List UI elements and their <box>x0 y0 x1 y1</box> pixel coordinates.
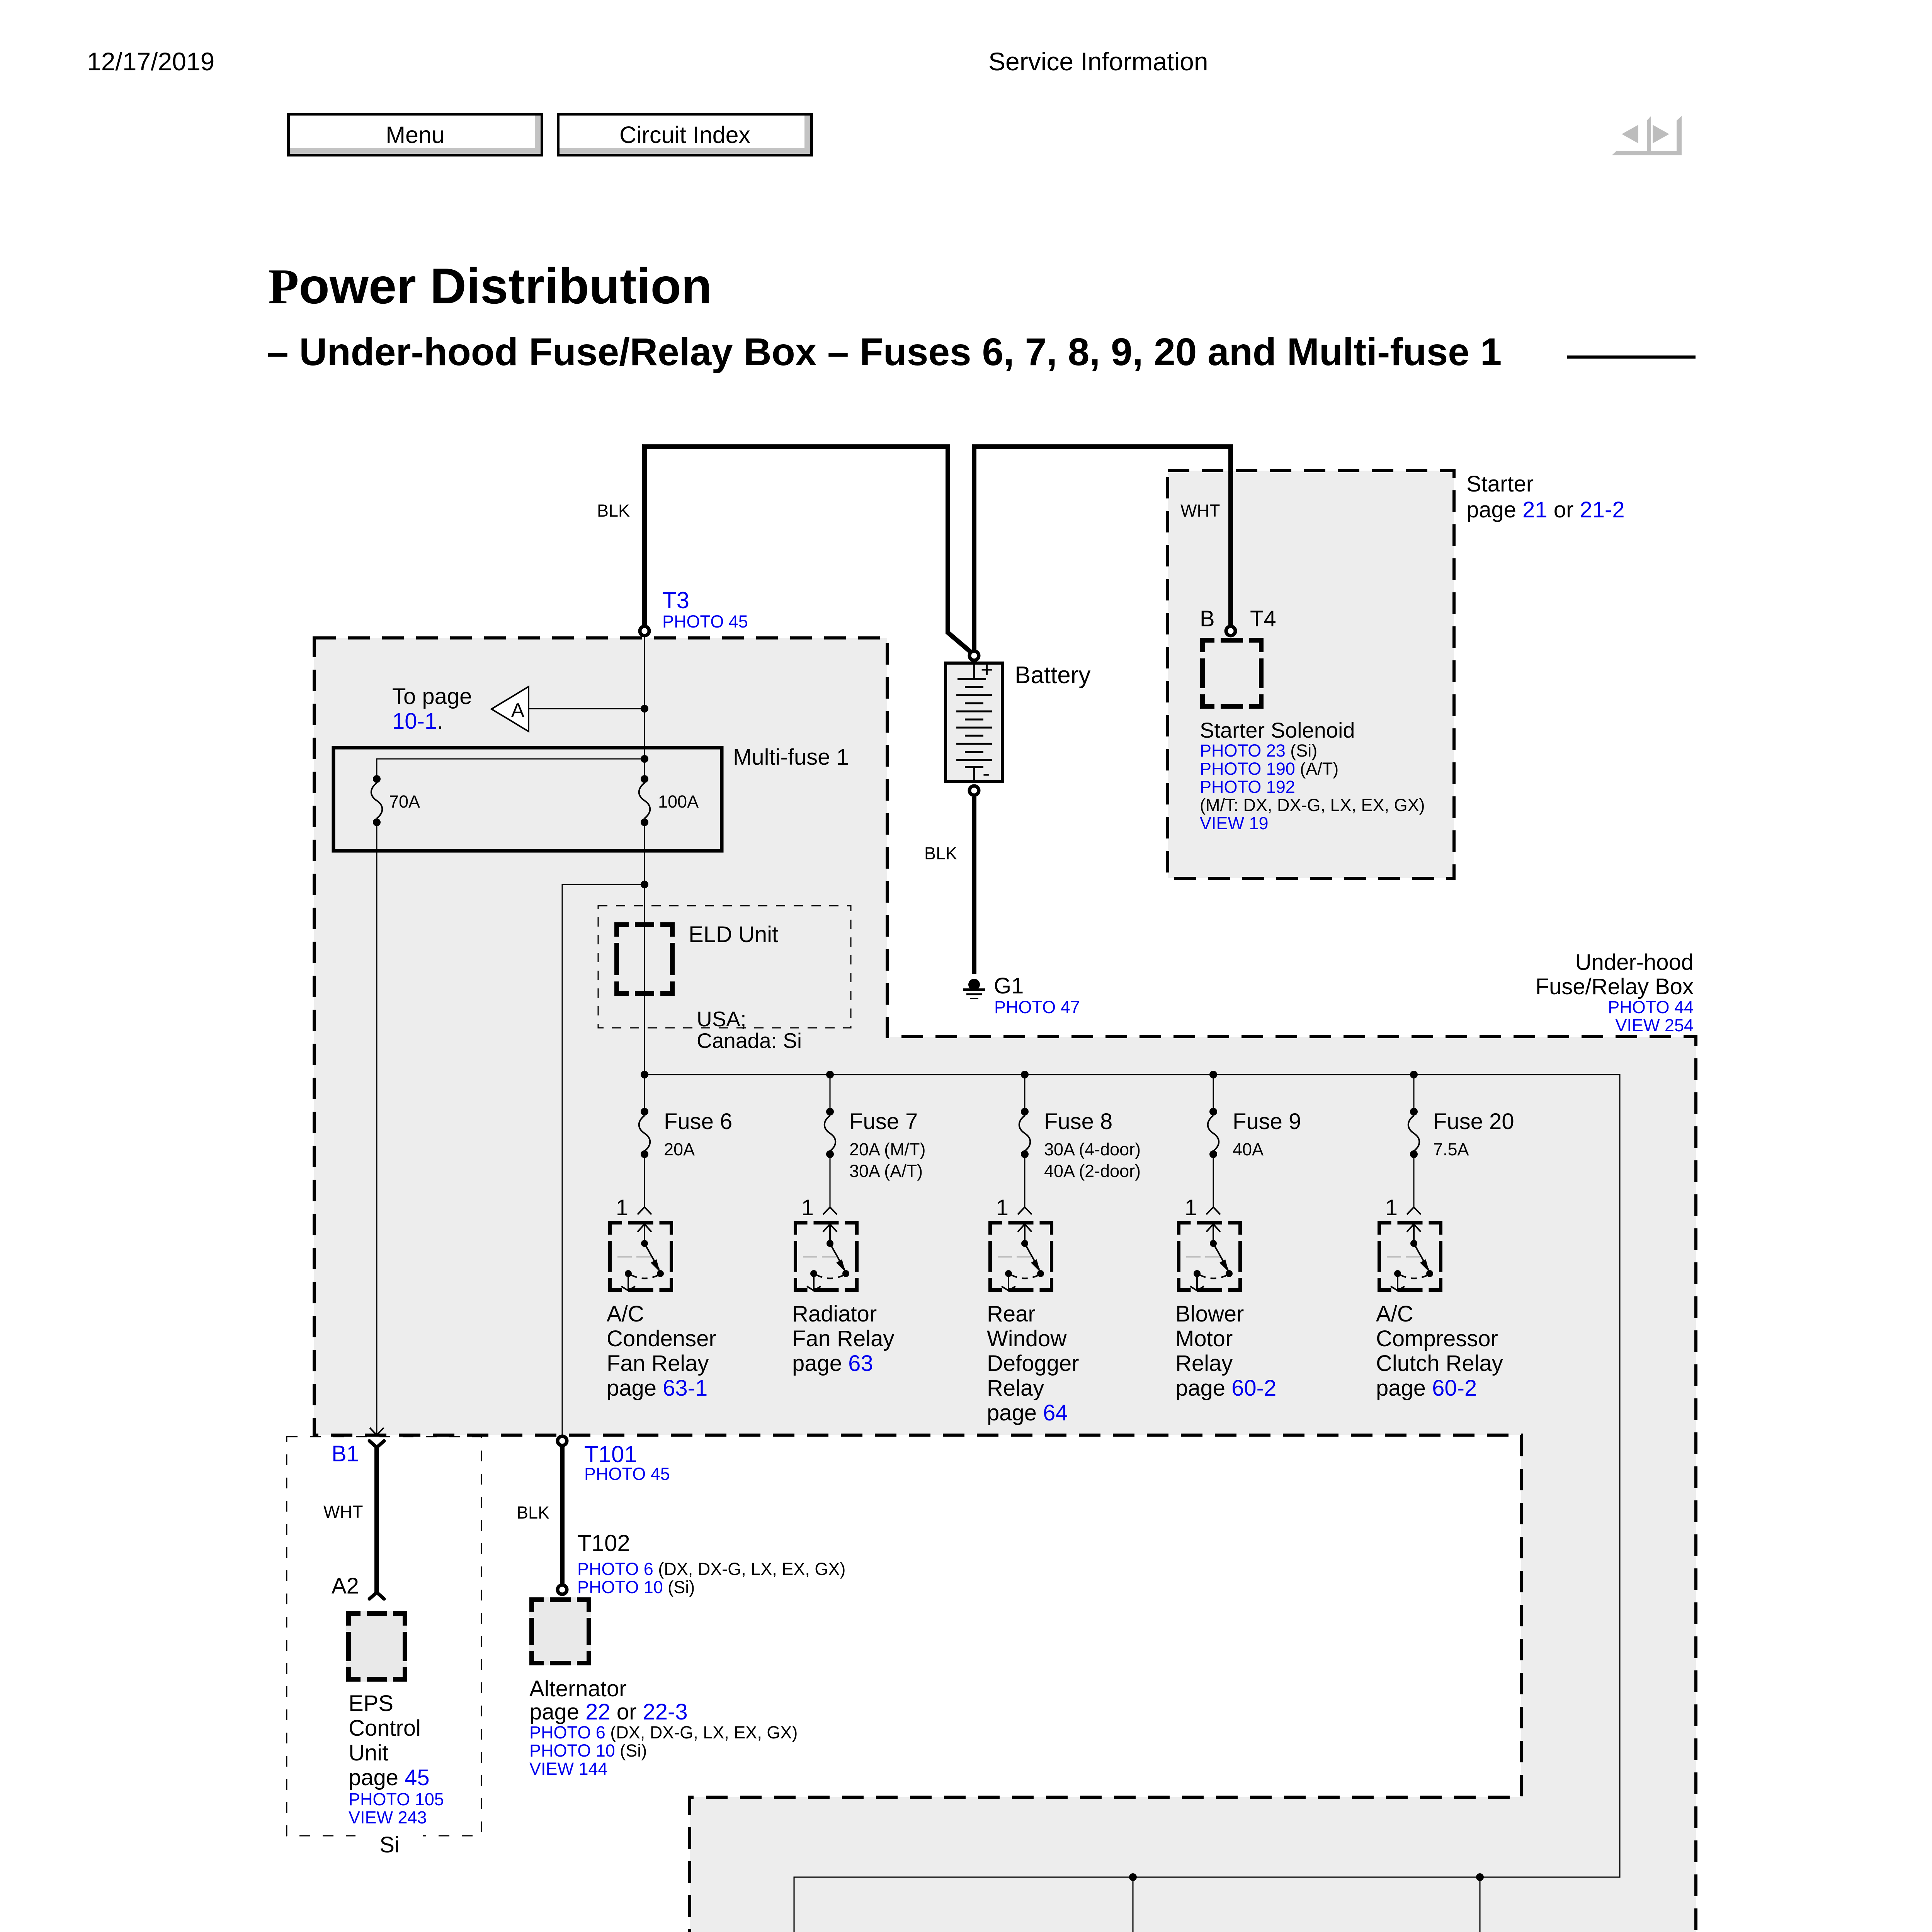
terminal T3 <box>640 626 649 636</box>
fuse Fuse 6 <box>644 1075 645 1112</box>
wire inside multi-fuse box <box>377 759 645 779</box>
svg-text:Si: Si <box>379 1832 400 1857</box>
svg-text:BLK: BLK <box>924 844 957 863</box>
node fuse Fuse 8 tap <box>1021 1071 1029 1078</box>
svg-text:Compressor: Compressor <box>1376 1326 1498 1351</box>
fuse Fuse 20 <box>1413 1075 1415 1112</box>
svg-text:Motor: Motor <box>1175 1326 1233 1351</box>
svg-text:Radiator: Radiator <box>792 1301 877 1327</box>
wire: battery+ up and over to starter T4 (WHT) <box>974 447 1231 650</box>
relay U1 contacts <box>621 1224 659 1291</box>
alternator connector box <box>529 1597 591 1665</box>
svg-text:Under-hood: Under-hood <box>1575 950 1694 975</box>
ground G1 <box>968 979 980 990</box>
page title <box>268 261 712 312</box>
Starter dashed box (shaded) <box>1168 471 1454 878</box>
svg-text:40A (2-door): 40A (2-door) <box>1044 1161 1141 1181</box>
svg-text:page 63-1: page 63-1 <box>607 1376 707 1401</box>
fuse bus wire <box>645 1075 1620 1932</box>
svg-text:PHOTO 192: PHOTO 192 <box>1200 777 1295 797</box>
svg-text:T4: T4 <box>1250 606 1276 631</box>
svg-text:BLK: BLK <box>597 501 630 520</box>
node fuse Fuse 6 tap <box>641 1071 648 1078</box>
node junction on main feed <box>641 705 648 713</box>
svg-text:70A: 70A <box>389 792 420 811</box>
subtitle <box>267 333 1502 371</box>
svg-text:Fuse 9: Fuse 9 <box>1233 1109 1301 1134</box>
svg-text:VIEW 19: VIEW 19 <box>1200 813 1269 833</box>
relay U2 contacts <box>807 1224 845 1291</box>
svg-text:30A (A/T): 30A (A/T) <box>849 1161 923 1181</box>
svg-text:20A (M/T): 20A (M/T) <box>849 1139 926 1159</box>
wire B1 to A2 (WHT) <box>374 1447 379 1593</box>
terminal T101 <box>558 1436 567 1446</box>
svg-text:PHOTO 45: PHOTO 45 <box>662 612 748 631</box>
wire T101 to T102 (BLK) <box>560 1446 565 1585</box>
Si dashed box <box>287 1437 481 1836</box>
wire taps to page connectors C and D <box>1133 1877 1134 1932</box>
terminal A2 fork <box>369 1592 384 1599</box>
terminal T102 <box>558 1585 567 1594</box>
svg-text:Fan Relay: Fan Relay <box>792 1326 894 1351</box>
svg-text:VIEW 254: VIEW 254 <box>1615 1015 1694 1035</box>
svg-text:Blower: Blower <box>1175 1301 1244 1327</box>
svg-text:PHOTO 47: PHOTO 47 <box>994 997 1080 1017</box>
svg-text:BLK: BLK <box>517 1503 549 1522</box>
header title <box>988 49 1208 74</box>
svg-text:B: B <box>1200 606 1215 631</box>
svg-text:page 45: page 45 <box>349 1765 430 1790</box>
Multi-fuse 1 box <box>333 748 722 851</box>
svg-text:20A: 20A <box>664 1139 695 1159</box>
node fuse Fuse 9 tap <box>1209 1071 1217 1078</box>
fuse 100A <box>641 775 648 783</box>
svg-text:Fan Relay: Fan Relay <box>607 1351 709 1376</box>
svg-text:EPS: EPS <box>349 1691 393 1716</box>
svg-text:Starter: Starter <box>1466 471 1534 497</box>
svg-text:40A: 40A <box>1233 1139 1264 1159</box>
svg-text:WHT: WHT <box>323 1502 363 1522</box>
EPS control unit connector box <box>346 1611 407 1682</box>
wire to page connector A <box>529 708 645 709</box>
battery terminal circles <box>969 651 979 660</box>
svg-text:Battery: Battery <box>1015 662 1090 689</box>
svg-text:PHOTO 105: PHOTO 105 <box>349 1789 444 1809</box>
svg-text:G1: G1 <box>994 973 1024 998</box>
svg-text:page 63: page 63 <box>792 1351 873 1376</box>
svg-text:PHOTO 23 (Si): PHOTO 23 (Si) <box>1200 741 1317 760</box>
svg-text:PHOTO 10 (Si): PHOTO 10 (Si) <box>577 1577 695 1597</box>
svg-text:1: 1 <box>616 1195 628 1220</box>
pin 1 terminal chevron <box>1407 1207 1421 1214</box>
svg-text:Clutch Relay: Clutch Relay <box>1376 1351 1503 1376</box>
main feed wire through box <box>644 637 645 779</box>
page connector A (triangle) <box>492 687 529 731</box>
svg-text:Fuse 20: Fuse 20 <box>1433 1109 1514 1134</box>
fuse Fuse 8 <box>1024 1075 1026 1112</box>
svg-text:1: 1 <box>1385 1195 1398 1220</box>
svg-text:Canada: Si: Canada: Si <box>697 1029 802 1053</box>
svg-text:USA;: USA; <box>697 1007 746 1031</box>
svg-text:Fuse/Relay Box: Fuse/Relay Box <box>1536 974 1694 999</box>
svg-text:Fuse 7: Fuse 7 <box>849 1109 918 1134</box>
node T101 branch junction <box>641 881 648 888</box>
ELD unit connector box <box>614 922 675 996</box>
relay U4 contacts <box>1190 1224 1228 1291</box>
svg-text:PHOTO 6 (DX, DX-G, LX, EX, GX): PHOTO 6 (DX, DX-G, LX, EX, GX) <box>577 1559 845 1579</box>
wire battery- to G1 (BLK) <box>972 797 976 974</box>
pin 1 terminal chevron <box>1206 1207 1220 1214</box>
svg-text:Fuse 6: Fuse 6 <box>664 1109 732 1134</box>
svg-text:Relay: Relay <box>987 1376 1044 1401</box>
wire main feed to fuse bus <box>644 822 645 1075</box>
wire fuse Fuse 9 to relay pin 1 <box>1213 1154 1214 1207</box>
svg-text:page 22 or 22-3: page 22 or 22-3 <box>529 1699 688 1725</box>
button Circuit Index (top) <box>557 113 813 156</box>
svg-text:Unit: Unit <box>349 1740 388 1765</box>
svg-text:-: - <box>983 761 990 785</box>
svg-text:A2: A2 <box>332 1573 359 1599</box>
relay U5 contacts <box>1391 1224 1429 1291</box>
svg-text:PHOTO 45: PHOTO 45 <box>584 1464 670 1484</box>
svg-text:A/C: A/C <box>1376 1301 1413 1327</box>
svg-text:Control: Control <box>349 1716 421 1741</box>
svg-text:10-1.: 10-1. <box>392 709 443 734</box>
svg-text:A/C: A/C <box>607 1301 644 1327</box>
relay U5 box <box>1378 1221 1442 1292</box>
svg-text:Relay: Relay <box>1175 1351 1233 1376</box>
svg-text:A: A <box>511 699 525 722</box>
svg-text:PHOTO 44: PHOTO 44 <box>1608 997 1694 1017</box>
svg-text:T3: T3 <box>662 587 689 613</box>
wire fuse Fuse 7 to relay pin 1 <box>830 1154 831 1207</box>
fuse Fuse 9 <box>1213 1075 1214 1112</box>
svg-text:30A (4-door): 30A (4-door) <box>1044 1139 1141 1159</box>
ELD unit outer dashed box <box>598 906 851 1028</box>
svg-text:1: 1 <box>1185 1195 1197 1220</box>
button Menu (top) <box>287 113 543 156</box>
wire fuse Fuse 20 to relay pin 1 <box>1413 1154 1415 1207</box>
node fuse Fuse 20 tap <box>1410 1071 1418 1078</box>
wire fuse Fuse 8 to relay pin 1 <box>1024 1154 1026 1207</box>
svg-text:page 21 or 21-2: page 21 or 21-2 <box>1466 497 1625 522</box>
relay U2 box <box>794 1221 859 1292</box>
svg-text:VIEW 243: VIEW 243 <box>349 1808 427 1827</box>
svg-text:WHT: WHT <box>1180 501 1220 520</box>
starter solenoid connector box <box>1200 638 1264 709</box>
svg-text:Defogger: Defogger <box>987 1351 1079 1376</box>
svg-text:Window: Window <box>987 1326 1067 1351</box>
fuse Fuse 7 <box>830 1075 831 1112</box>
nav arrows icon (top right) <box>1612 116 1682 156</box>
relay U4 box <box>1177 1221 1242 1292</box>
svg-text:B1: B1 <box>332 1441 359 1466</box>
svg-text:page 64: page 64 <box>987 1400 1068 1425</box>
wire 70A fuse output down to B1 <box>376 822 378 1435</box>
pin 1 terminal chevron <box>1018 1207 1032 1214</box>
svg-text:PHOTO 10 (Si): PHOTO 10 (Si) <box>529 1741 647 1760</box>
battery <box>946 663 1002 782</box>
svg-text:PHOTO 190 (A/T): PHOTO 190 (A/T) <box>1200 759 1338 779</box>
pin 1 terminal chevron <box>638 1207 651 1214</box>
fuse 70A <box>373 775 381 783</box>
svg-text:ELD Unit: ELD Unit <box>689 922 778 947</box>
svg-text:page 60-2: page 60-2 <box>1376 1376 1477 1401</box>
header date <box>87 49 214 74</box>
Under-hood Fuse/Relay Box dashed outline (shaded) <box>314 638 1696 1932</box>
terminal B1 fork <box>369 1441 384 1447</box>
relay U1 box <box>608 1221 673 1292</box>
svg-text:Multi-fuse 1: Multi-fuse 1 <box>733 745 849 770</box>
svg-text:Alternator: Alternator <box>529 1676 626 1701</box>
relay U3 box <box>988 1221 1053 1292</box>
wire: battery+ to T3 (BLK) <box>645 447 971 652</box>
svg-text:Condenser: Condenser <box>607 1326 716 1351</box>
wire branch to T101 <box>562 884 645 1436</box>
svg-text:+: + <box>981 658 993 682</box>
title rule <box>1567 355 1696 359</box>
svg-text:PHOTO 6 (DX, DX-G, LX, EX, GX): PHOTO 6 (DX, DX-G, LX, EX, GX) <box>529 1723 798 1742</box>
svg-text:To page: To page <box>392 684 472 709</box>
svg-text:page 60-2: page 60-2 <box>1175 1376 1276 1401</box>
arrow into B1 <box>370 1428 384 1435</box>
svg-text:1: 1 <box>801 1195 814 1220</box>
svg-text:(M/T: DX, DX-G, LX, EX, GX): (M/T: DX, DX-G, LX, EX, GX) <box>1200 795 1425 815</box>
svg-text:1: 1 <box>996 1195 1009 1220</box>
svg-text:Starter Solenoid: Starter Solenoid <box>1200 718 1355 742</box>
relay U3 contacts <box>1002 1224 1039 1291</box>
pin 1 terminal chevron <box>823 1207 837 1214</box>
wire fuse Fuse 6 to relay pin 1 <box>644 1154 645 1207</box>
node fuse Fuse 7 tap <box>826 1071 834 1078</box>
svg-text:T102: T102 <box>577 1530 630 1556</box>
svg-text:Rear: Rear <box>987 1301 1036 1327</box>
svg-text:VIEW 144: VIEW 144 <box>529 1759 608 1779</box>
svg-text:100A: 100A <box>658 792 699 811</box>
svg-text:T101: T101 <box>584 1441 637 1467</box>
svg-text:7.5A: 7.5A <box>1433 1139 1469 1159</box>
svg-text:Fuse 8: Fuse 8 <box>1044 1109 1112 1134</box>
terminal T4 <box>1226 626 1235 636</box>
